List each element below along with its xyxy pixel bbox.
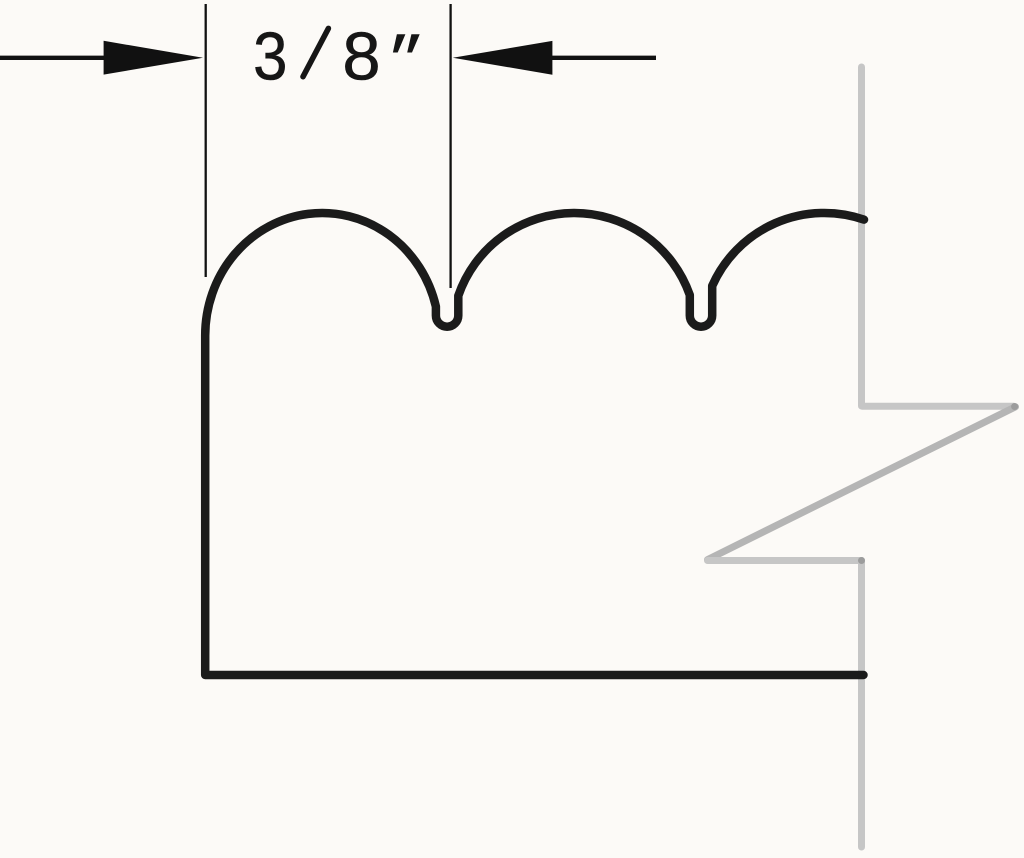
- left dimension arrow tail: [0, 56, 112, 60]
- dimension text slash: [303, 28, 328, 76]
- svg-text:8: 8: [342, 19, 380, 95]
- break line horizontal lower (gray): [708, 557, 862, 564]
- break line vertical lower (gray): [858, 561, 865, 848]
- left dimension arrowhead: [104, 41, 203, 75]
- junction dot lower (dark gray): [858, 557, 865, 564]
- molding profile outline (black): [205, 213, 864, 675]
- break line vertical upper (gray): [858, 67, 865, 406]
- svg-text:3: 3: [253, 19, 287, 95]
- junction dot upper (dark gray): [1011, 403, 1018, 410]
- break line diagonal (gray): [708, 407, 1016, 560]
- dimension text inch marks: [393, 34, 420, 52]
- right dimension arrowhead: [453, 41, 553, 75]
- dimension extension line right: [449, 4, 451, 288]
- dimension extension line left: [205, 4, 207, 277]
- break line horizontal upper (gray): [862, 403, 1015, 410]
- right dimension arrow tail: [552, 56, 656, 60]
